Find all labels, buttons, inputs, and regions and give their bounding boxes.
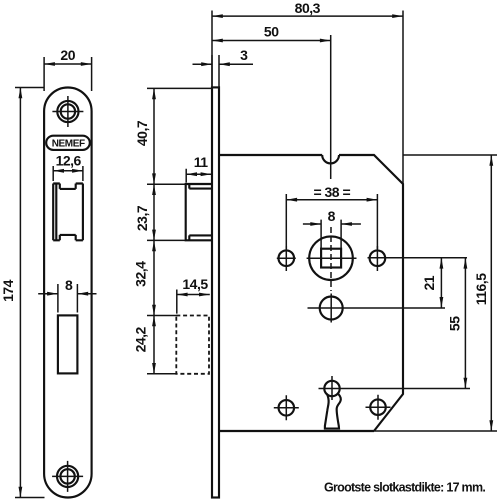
svg-text:24,2: 24,2 (133, 326, 149, 352)
svg-text:50: 50 (264, 24, 279, 40)
svg-text:Grootste slotkastdikte: 17 mm.: Grootste slotkastdikte: 17 mm. (324, 481, 485, 495)
dimension 20 lines and arrows (44, 57, 92, 91)
left fixing hole (279, 250, 295, 266)
dimension 3 lines and arrows (193, 55, 254, 87)
keyhole slot (325, 393, 341, 428)
bottom left fixing hole (279, 400, 295, 416)
top screw hole inner circle (61, 104, 75, 118)
svg-text:NEMEF: NEMEF (52, 138, 85, 149)
latch bolt (side view) (186, 184, 212, 240)
svg-text:116,5: 116,5 (473, 273, 489, 305)
arrows of stacked dimensions (152, 88, 156, 99)
deadbolt retracted (dashed rectangle, side view) (176, 316, 209, 374)
svg-text:20: 20 (60, 47, 75, 63)
top screw hole outer circle (57, 101, 78, 122)
dimension 12,6 line and arrows (53, 166, 83, 181)
svg-text:8: 8 (65, 277, 73, 293)
keyhole circle (324, 381, 339, 396)
right fixing hole (370, 250, 386, 266)
dimension 21 line and arrows (440, 258, 442, 308)
dimension 80,3 lines and arrows (212, 11, 403, 185)
svg-text:80,3: 80,3 (295, 0, 321, 16)
deadbolt cutout rectangle (58, 315, 78, 373)
NEMEF logo badge (stadium outline) (46, 136, 90, 150)
bottom right fixing hole (370, 399, 386, 415)
keyhole crosshair and extension line (319, 376, 471, 400)
bottom screw crosshair (52, 461, 83, 492)
bottom right fixing hole crosshair (366, 395, 391, 420)
bottom screw hole outer circle (57, 466, 78, 487)
right fixing hole crosshair and extension line (368, 246, 468, 271)
svg-text:55: 55 (447, 316, 463, 331)
latch cutout (front view) (53, 184, 83, 241)
spindle square hole (321, 249, 341, 268)
faceplate side view bar (212, 87, 219, 497)
lock body outline with chamfered corners and top notch (219, 155, 403, 431)
left fixing hole crosshair (277, 246, 296, 271)
svg-text:= 38 =: = 38 = (313, 184, 350, 200)
faceplate outline (front view, stadium shape) (44, 88, 92, 498)
dimension 174 vertical line, ticks and arrows (15, 88, 45, 498)
svg-text:3: 3 (240, 47, 248, 63)
lower hole crosshair and extension line (308, 294, 446, 323)
svg-text:14,5: 14,5 (182, 276, 208, 292)
spindle horizontal centreline (307, 257, 357, 259)
svg-text:11: 11 (194, 154, 209, 170)
dimension 14,5 lines and arrows (177, 290, 210, 314)
svg-text:8: 8 (328, 208, 336, 224)
bottom screw hole inner circle (60, 469, 74, 483)
spindle circle (309, 236, 353, 280)
dimension 38 lines and arrows (286, 194, 377, 249)
dimension 11 lines and arrows (186, 169, 211, 183)
svg-text:21: 21 (421, 275, 437, 290)
dimension 8 lines and arrows (38, 284, 96, 313)
lock body bottom edge with extension to 116,5 (219, 430, 374, 432)
dimension 8 spindle lines and arrows (303, 220, 361, 248)
lower hole (320, 297, 343, 320)
svg-text:12,6: 12,6 (56, 152, 82, 168)
dimension 55 line and arrows (464, 258, 466, 389)
svg-text:23,7: 23,7 (134, 205, 150, 231)
svg-text:32,4: 32,4 (133, 261, 149, 287)
bottom left fixing hole crosshair (274, 395, 299, 420)
dimension 116,5 line and arrows (490, 155, 492, 431)
spindle vertical centreline (dashed) (330, 227, 332, 291)
svg-text:40,7: 40,7 (134, 120, 150, 146)
top screw crosshair (52, 96, 83, 127)
svg-text:174: 174 (0, 279, 16, 302)
dimension 50 line, arrows and centreline through notch (212, 35, 331, 179)
left stacked dimension column line and ticks (147, 88, 213, 373)
